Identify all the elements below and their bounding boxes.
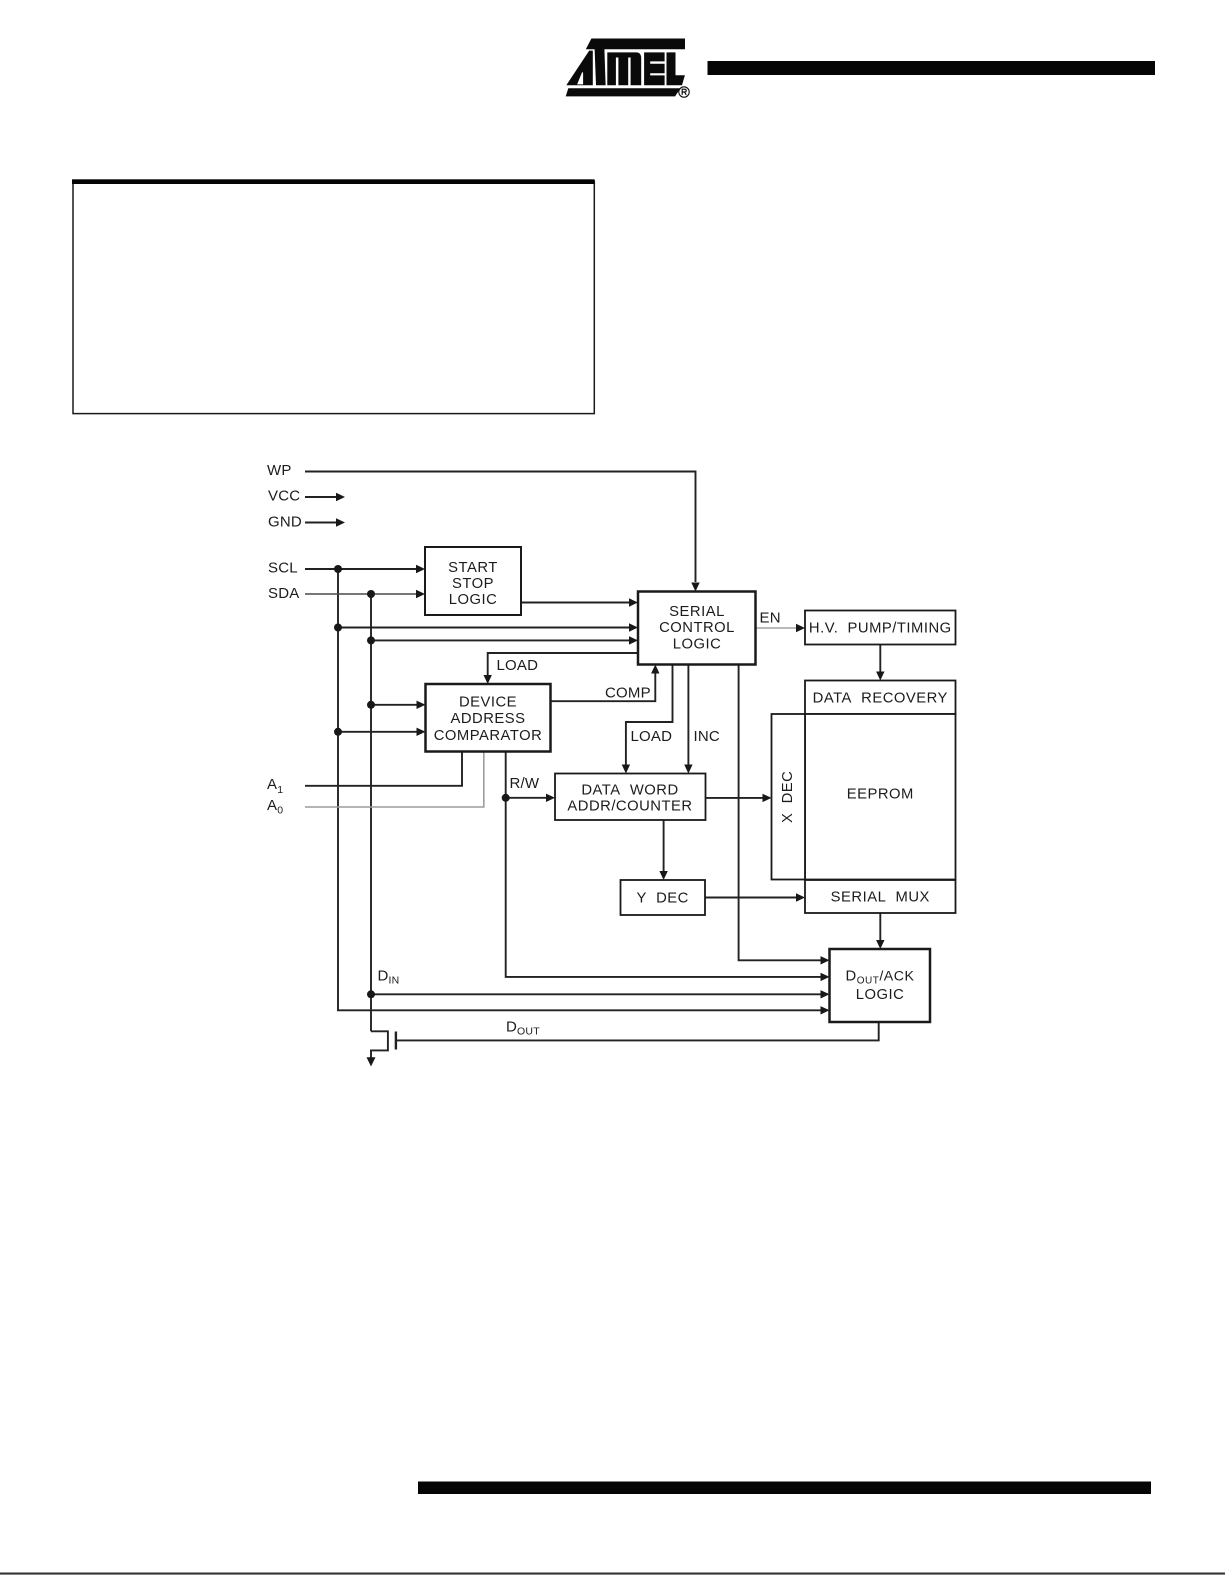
wire SCL vertical trunk xyxy=(338,569,821,1010)
arrowhead SCL into comparator xyxy=(417,728,426,736)
svg-text:COMPARATOR: COMPARATOR xyxy=(434,728,543,744)
top header bar xyxy=(708,61,1156,75)
block DEVICE ADDRESS COMPARATOR xyxy=(426,684,551,752)
wire SDA horizontal (light) xyxy=(305,593,417,595)
svg-text:DEVICE: DEVICE xyxy=(459,695,517,711)
wire INC xyxy=(687,665,689,765)
transistor gate bar xyxy=(395,1032,397,1050)
svg-text:CONTROL: CONTROL xyxy=(659,620,735,636)
wire LOAD to data word counter xyxy=(626,665,673,765)
block Y DEC xyxy=(621,880,706,915)
empty feature box xyxy=(72,179,595,413)
svg-text:EN: EN xyxy=(760,609,781,626)
wire hv pump to data recovery xyxy=(879,645,881,673)
block START STOP LOGIC xyxy=(425,547,521,615)
bottom hairline xyxy=(0,1573,1225,1575)
arrowhead R/W into dout/ack xyxy=(821,973,830,981)
wire SCL to comparator xyxy=(338,731,417,733)
svg-text:LOAD: LOAD xyxy=(631,728,673,745)
svg-text:R/W: R/W xyxy=(510,775,540,792)
svg-text:INC: INC xyxy=(694,728,720,745)
ATMEL logo xyxy=(566,39,685,97)
wire SCL to serial control xyxy=(338,627,630,629)
bottom footer bar xyxy=(418,1482,1151,1495)
arrowhead SCL into serial control xyxy=(629,623,638,631)
wire y dec to serial mux xyxy=(705,897,797,899)
arrowhead transistor source down xyxy=(367,1057,376,1066)
svg-text:LOGIC: LOGIC xyxy=(673,637,722,653)
wire data word to x dec xyxy=(706,797,764,799)
wire SDA vertical trunk xyxy=(370,594,372,1031)
svg-text:START: START xyxy=(448,560,498,576)
svg-text:H.V. PUMP/TIMING: H.V. PUMP/TIMING xyxy=(809,620,952,636)
arrowhead serial ctl into dout/ack xyxy=(821,956,830,964)
junction dot SCL/start xyxy=(334,565,342,573)
svg-text:A0: A0 xyxy=(267,797,283,817)
wire SDA to comparator xyxy=(371,704,417,706)
junction dot SCL/serial xyxy=(334,624,342,632)
arrowhead SDA into start/stop xyxy=(416,590,425,598)
arrowhead SCL into dout/ack xyxy=(821,1006,830,1014)
svg-text:SERIAL MUX: SERIAL MUX xyxy=(831,890,930,906)
arrowhead start/stop into serial control xyxy=(629,598,638,606)
wire R/W net xyxy=(506,752,821,977)
arrowhead WP into serial control top xyxy=(691,583,699,592)
svg-text:GND: GND xyxy=(268,514,302,531)
svg-text:EEPROM: EEPROM xyxy=(847,787,914,803)
wire LOAD to comparator xyxy=(488,653,638,676)
block X DEC xyxy=(772,714,806,880)
svg-text:VCC: VCC xyxy=(268,488,300,505)
block DATA WORD ADDR/COUNTER xyxy=(555,774,706,821)
wire SCL horizontal xyxy=(305,568,417,570)
arrowhead serial mux into dout/ack xyxy=(876,940,884,949)
svg-text:ADDRESS: ADDRESS xyxy=(450,711,525,727)
wire data word to y dec xyxy=(663,820,665,872)
block EEPROM xyxy=(805,714,956,880)
arrowhead COMP into serial control bottom xyxy=(651,665,659,674)
arrowhead SDA into serial control xyxy=(629,636,638,644)
svg-text:X DEC: X DEC xyxy=(780,771,796,823)
wire A1 xyxy=(305,752,462,786)
arrowhead LOAD into comparator top xyxy=(484,675,492,684)
arrowhead GND xyxy=(336,518,345,526)
svg-text:LOGIC: LOGIC xyxy=(856,987,905,1003)
block DATA RECOVERY xyxy=(805,681,956,715)
arrowhead EN into hv pump xyxy=(796,624,805,632)
wire EN (light) xyxy=(756,627,798,629)
junction dot SCL/comparator xyxy=(334,728,342,736)
arrowhead into y dec top xyxy=(659,871,667,880)
svg-text:DIN: DIN xyxy=(378,967,400,986)
wire start/stop to serial control xyxy=(521,602,630,604)
wire DOUT xyxy=(397,1022,879,1040)
wire serial mux to dout/ack xyxy=(879,913,881,941)
svg-text:SCL: SCL xyxy=(268,560,298,577)
svg-text:SERIAL: SERIAL xyxy=(669,604,725,620)
block SERIAL MUX xyxy=(805,880,956,913)
block DOUT/ACK LOGIC xyxy=(830,949,931,1022)
svg-text:WP: WP xyxy=(267,462,292,479)
svg-text:LOGIC: LOGIC xyxy=(449,592,498,608)
arrowhead into data recovery xyxy=(876,672,884,681)
svg-text:DATA RECOVERY: DATA RECOVERY xyxy=(813,690,948,706)
svg-text:ADDR/COUNTER: ADDR/COUNTER xyxy=(567,799,692,815)
block SERIAL CONTROL LOGIC xyxy=(638,592,756,665)
svg-text:SDA: SDA xyxy=(268,585,299,602)
svg-text:A1: A1 xyxy=(267,776,283,796)
wire COMP xyxy=(551,674,656,702)
svg-text:Y DEC: Y DEC xyxy=(637,891,689,907)
arrowhead SCL into start/stop xyxy=(416,565,425,573)
junction dot SDA/start xyxy=(367,590,375,598)
arrowhead data word into x dec xyxy=(763,794,772,802)
svg-text:DATA WORD: DATA WORD xyxy=(581,783,678,799)
wire WP xyxy=(305,472,696,583)
junction dot SDA/comparator xyxy=(367,701,375,709)
wire SDA to serial control xyxy=(371,639,630,641)
junction dot DIN xyxy=(367,990,375,998)
arrowhead DIN into dout/ack xyxy=(821,990,830,998)
wire VCC stub xyxy=(305,496,336,498)
arrowhead LOAD into data word xyxy=(622,765,630,774)
wire serial control to dout/ack xyxy=(739,665,821,960)
arrowhead y dec into serial mux xyxy=(796,893,805,901)
registered mark xyxy=(679,87,689,97)
junction dot R/W xyxy=(502,794,510,802)
wire A0 (light) xyxy=(305,752,484,807)
arrowhead R/W into data word xyxy=(546,794,555,802)
block H.V. PUMP/TIMING xyxy=(805,611,956,645)
arrowhead SDA into comparator xyxy=(417,701,426,709)
svg-text:STOP: STOP xyxy=(452,576,494,592)
svg-text:DOUT: DOUT xyxy=(506,1018,540,1037)
junction dot SDA/serial xyxy=(367,636,375,644)
wire DIN xyxy=(371,993,821,995)
transistor output driver channel xyxy=(371,1031,388,1059)
arrowhead VCC xyxy=(336,493,345,501)
svg-text:COMP: COMP xyxy=(605,684,651,701)
arrowhead INC into data word xyxy=(684,765,692,774)
svg-text:DOUT/ACK: DOUT/ACK xyxy=(846,968,915,986)
wire GND stub xyxy=(305,522,336,524)
wire R/W branch to data word xyxy=(506,797,547,799)
svg-text:LOAD: LOAD xyxy=(497,657,539,674)
